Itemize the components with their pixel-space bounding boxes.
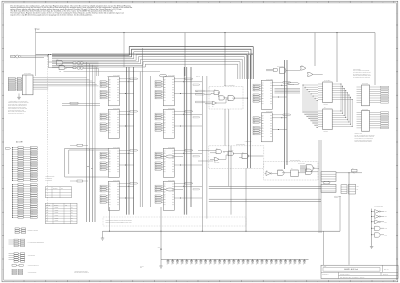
ground symbol U1 (17, 96, 21, 98)
resistor array RN1 (8, 78, 15, 80)
connector ALU STATIONARY (12, 264, 16, 266)
wire trunk A4 (139, 72, 141, 208)
svg-text:U? 74HC574: U? 74HC574 (362, 83, 368, 85)
junction power rail x124 (123, 32, 124, 33)
svg-text:OVR: OVR (385, 234, 387, 236)
junction power rail x337 (336, 32, 337, 33)
svg-text:U? 74HC245: U? 74HC245 (24, 73, 31, 75)
or-gate U10C (214, 158, 219, 162)
wire 2flag feed left a (198, 150, 210, 152)
wire status top (336, 172, 362, 174)
wire clk pair upper (21, 55, 48, 57)
wires U1 outputs (33, 77, 87, 79)
and-gate U15 (306, 169, 312, 175)
bus trunk E2 (250, 55, 252, 168)
zero-flag calculator dashed box (264, 162, 319, 180)
title block row divider 2 (339, 274, 399, 276)
ground symbol caps rail (159, 265, 162, 267)
wire power drop x375 (374, 33, 376, 85)
svg-text:U? 74HC32: U? 74HC32 (214, 162, 220, 164)
wire power drop x315 (314, 33, 316, 66)
wire power drop x124 (123, 33, 125, 67)
bus trunk E1 (247, 55, 249, 168)
wire power drop x337 (336, 33, 338, 82)
power flag VCC caps (160, 248, 162, 249)
wire VCC vertical trunk left (35, 31, 37, 76)
2-flag calculator dashed box (209, 146, 264, 169)
connector J1 ALU core upper (11, 148, 13, 181)
wire gate out b (67, 67, 74, 69)
resistor R-loop2 (77, 180, 83, 182)
junction clk (47, 55, 48, 56)
wire loop bottom a (65, 176, 109, 178)
wires zero-flag gates (265, 172, 267, 174)
wire hex inverter trunk (371, 209, 373, 246)
wire bottom power rail y231 (103, 230, 341, 232)
wire trunk C1 (201, 76, 203, 231)
wires U4 in (266, 68, 273, 70)
nor8-gate U12 74HC4078 (306, 165, 313, 172)
status register lower box U17 (321, 184, 336, 192)
bus trunk F1 (284, 60, 286, 169)
wires 2-flag gates (210, 150, 216, 152)
wire loop vertical a (64, 148, 66, 177)
svg-text:CLK: CLK (11, 56, 14, 58)
svg-text:Company: ZS 20XX: Company: ZS 20XX (340, 274, 350, 276)
bus trunk B1 (183, 67, 185, 215)
junction bottom rail 2 (160, 231, 161, 232)
bus trunk A2 (128, 67, 130, 215)
wire gate out a (63, 62, 73, 64)
connector ALU INPUTS (14, 253, 18, 255)
wire clk pair lower (21, 56, 44, 58)
clock oval status (323, 181, 330, 184)
flag carry input 3 (196, 101, 206, 103)
wire long bus pair1 a (209, 185, 321, 187)
bus trunk F2 (286, 60, 288, 165)
wire cap feed x161 (160, 207, 162, 260)
svg-text:VCC: VCC (37, 29, 40, 31)
note separator dots (47, 100, 49, 140)
junction clock trunk a (48, 54, 49, 55)
title block outer (321, 265, 398, 278)
junction clock trunk b (50, 54, 51, 55)
wire trunk C2 (206, 76, 208, 219)
svg-text:G: G (397, 153, 398, 155)
svg-text:www.1093-panels.example/BBB/xx: www.1093-panels.example/BBB/xxx/can_v010… (106, 221, 133, 223)
power flag VCC top (35, 30, 37, 32)
wire drop x246 (245, 168, 247, 231)
ground symbol bottom rail (101, 237, 104, 239)
svg-text:U? 74HC04 flags: U? 74HC04 flags (374, 206, 383, 208)
wire gnd stub x102 (102, 231, 104, 238)
wire cell gnd stub x109 (109, 207, 111, 231)
bus flag ALU out (288, 83, 299, 85)
wire caps rail (161, 259, 309, 261)
svg-text:G: G (2, 153, 3, 155)
hex inverter gates (375, 210, 380, 214)
connector J2 ALU core lower (11, 185, 13, 218)
wire vertical x349 status-to-title (348, 173, 350, 265)
diagonal data bus staircase (303, 84, 318, 86)
svg-text:REV: 1.1: REV: 1.1 (384, 269, 389, 271)
wire long bus pair2 a (209, 198, 321, 200)
wire loop top a (65, 147, 109, 149)
latch box U14 (291, 170, 299, 177)
IC U7 74HC299 body (323, 109, 333, 130)
wire long bus pair1 b (209, 188, 321, 190)
wire U1 gnd stub (18, 94, 20, 98)
bus verticals from connector (86, 148, 88, 222)
svg-text:U?B: U?B (59, 71, 61, 73)
svg-text:POWER & CLOCK: POWER & CLOCK (28, 230, 39, 232)
and-gate U3B (219, 96, 225, 100)
clock buffer oval 3 (159, 74, 166, 77)
and-gate U10D (242, 154, 248, 159)
status rows (321, 173, 336, 175)
svg-text:U? 74HC4078: U? 74HC4078 (298, 163, 305, 165)
inverter U11 (266, 171, 271, 175)
border zone tick marks (23, 1, 25, 3)
and-gate U10B (228, 152, 234, 156)
wire 2flag feed left b (198, 160, 210, 162)
clock buffer oval 1 (166, 155, 174, 158)
status out header boxes B (349, 184, 356, 194)
or-gate U3C (212, 102, 217, 105)
svg-text:U? 74HC08: U? 74HC08 (228, 150, 234, 152)
and-gate U2A (57, 61, 63, 66)
wire trunk G1 (318, 140, 320, 233)
wire loop vertical b (68, 150, 70, 174)
junction bottom rail 1 (109, 231, 110, 232)
svg-text:U? 74HC299: U? 74HC299 (324, 80, 331, 82)
status small box top (352, 169, 358, 172)
nand-gate U2B (59, 66, 65, 70)
connector J1 arrow symbol (6, 147, 11, 149)
connector ALU OUTPUTS (12, 269, 16, 271)
wire caps rail gnd drop (160, 260, 162, 266)
connector clock-driver P3 (73, 62, 76, 64)
connector FUNCTION SELECTORS (14, 239, 18, 241)
or-gate U5A (301, 66, 306, 70)
title block col divider logo (338, 272, 340, 278)
wire trunk G2 (320, 140, 322, 233)
bus fan nested wires (52, 47, 253, 79)
svg-text:VCC: VCC (158, 247, 161, 249)
nand-gate U10A (216, 150, 222, 154)
flag carry input 1 (196, 90, 206, 92)
wire gate out c (64, 71, 161, 73)
wires adder outputs right (275, 88, 301, 90)
wire main clock trunk y54.5 (36, 54, 253, 56)
wire gate feed vertical (48, 55, 50, 68)
wire trunk B0 (150, 76, 152, 207)
title block col divider rev (382, 265, 384, 272)
carry-in calculator dashed box (209, 86, 243, 109)
connector POWER & CLOCK (15, 228, 19, 230)
and-gate U4 alu-op (273, 69, 277, 72)
bus trunk B3 (190, 67, 192, 207)
bus trunk A3 (133, 67, 135, 215)
and-gate U3D out (228, 96, 234, 101)
wire drop x323.5 (323, 231, 325, 265)
svg-text:U? 74HC574: U? 74HC574 (362, 109, 368, 111)
svg-text:registers this is top AV: registers this is top AV determining app… (10, 13, 93, 16)
decoupling capacitors C1-C30 (167, 260, 169, 261)
svg-text:U? 74HComm: U? 74HComm (277, 66, 284, 68)
bus hatch marks on trunk (52, 53, 253, 55)
title block inner title box (323, 268, 380, 272)
bus trunk B2 (186, 67, 188, 215)
thanks note dashed box (103, 217, 246, 226)
wire trunk D1 (224, 109, 226, 146)
IC U1 74HC245 body (22, 75, 33, 95)
wire long bus pair2 b (209, 200, 321, 202)
title block row divider 1 (321, 271, 398, 273)
bus trunk A1 (126, 67, 128, 215)
clock buffer oval 2 (166, 188, 174, 191)
svg-text:CIN: CIN (196, 90, 198, 92)
wires alu input stubs (9, 252, 15, 254)
wire drop x340 (339, 196, 341, 231)
connector J-CLK symbol (11, 55, 15, 58)
junction bottom rail 3 (202, 231, 203, 232)
IC U9 74HC574 body (362, 111, 370, 132)
wire power drop x185 (184, 33, 186, 76)
wire power rail horizontal y33 (36, 32, 375, 34)
wire trunk A5 (141, 48, 143, 207)
output status register U16 (321, 172, 336, 182)
wire trunk D2 (228, 109, 230, 186)
svg-text:S3 S2 S1: S3 S2 S1 (46, 205, 50, 207)
wire PWR pair (62, 103, 100, 105)
svg-text:U? 74HC08: U? 74HC08 (278, 168, 284, 170)
wire clk dotted drop (47, 56, 49, 222)
truth table 2 (45, 203, 77, 223)
status out header boxes A (341, 185, 347, 194)
IC U6/U7 pin stubs (318, 83, 323, 85)
IC U6 74HC299 body (323, 82, 333, 103)
wires function selector stubs (9, 239, 15, 241)
ground symbol hex inverters (371, 245, 373, 248)
wire trunk D3 (230, 146, 232, 215)
nand-gate U3A (214, 91, 219, 95)
wires nor8 inputs (300, 164, 307, 166)
wire power drop x225 (224, 33, 226, 86)
wire loop top b (69, 149, 109, 151)
title block col divider sheet (380, 272, 382, 275)
flag carry input 2 (196, 93, 206, 95)
or-gate U5B (308, 72, 313, 76)
junction power rail x225 (224, 32, 225, 33)
truth table 1 (45, 187, 71, 198)
wires carry-in gates (205, 90, 214, 92)
resistor R-loop1 (77, 144, 83, 146)
IC U8/U9 pins and resistor networks (357, 86, 362, 88)
junction bus verticals (88, 166, 89, 167)
and-gate U13 (278, 170, 285, 175)
wires clock bus verticals (86, 62, 88, 222)
wires clock driver out (83, 61, 98, 63)
junction bottom rail 4 (245, 231, 246, 232)
IC U8 74HC574 body (362, 85, 370, 106)
